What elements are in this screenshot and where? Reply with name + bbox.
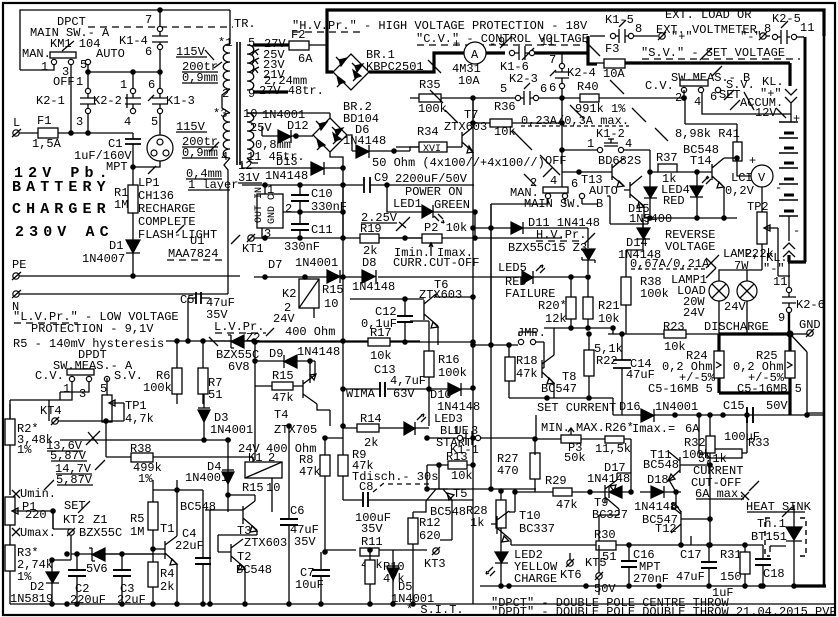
svg-text:270nF: 270nF [633,572,669,586]
svg-text:S.V.: S.V. [114,369,143,383]
svg-text:22uF: 22uF [175,539,204,553]
svg-text:T14: T14 [690,154,712,168]
svg-text:1: 1 [76,75,83,89]
svg-text:R18: R18 [516,354,538,368]
svg-text:R21: R21 [598,299,620,313]
svg-text:1: 1 [63,382,70,396]
svg-text:MAN.: MAN. [22,47,51,61]
svg-text:R33: R33 [748,436,770,450]
svg-text:CH136: CH136 [138,189,174,203]
wire junction row 218 [607,196,737,228]
svg-text:R29: R29 [545,474,567,488]
svg-text:5V6: 5V6 [86,562,108,576]
svg-text:SET: SET [64,499,86,513]
svg-text:BT151: BT151 [751,530,787,544]
svg-text:MPT: MPT [106,160,128,174]
svg-text:5: 5 [151,115,158,129]
svg-text:OFF: OFF [545,154,567,168]
svg-text:T1: T1 [160,522,174,536]
svg-text:Umin.: Umin. [20,487,56,501]
terminal KT6, terminal KT5 [567,560,573,566]
svg-text:47uF: 47uF [676,570,705,584]
svg-text:"H.V.Pr." - HIGH VOLTAGE PROTE: "H.V.Pr." - HIGH VOLTAGE PROTECTION - 18… [292,19,588,33]
svg-text:3: 3 [76,115,83,129]
terminal KT1 [248,235,254,241]
svg-text:7: 7 [145,13,152,27]
svg-text:ZTX603: ZTX603 [244,536,287,550]
svg-text:RED: RED [663,194,685,208]
svg-text:1M: 1M [114,198,128,212]
svg-text:10: 10 [324,297,338,311]
svg-text:OUT IN: OUT IN [254,187,265,223]
svg-text:R16: R16 [438,353,460,367]
svg-text:Th.1: Th.1 [757,517,786,531]
svg-text:P2 10k: P2 10k [424,221,467,235]
svg-text:1N4007: 1N4007 [82,252,125,266]
svg-text:11,5k: 11,5k [595,442,631,456]
svg-text:1N4148: 1N4148 [297,345,340,359]
svg-text:47k: 47k [516,367,538,381]
terminal KT3 [433,548,439,554]
wire thick HV bus [327,10,824,45]
svg-text:1N4148: 1N4148 [634,500,677,514]
svg-text:6: 6 [540,82,547,96]
svg-text:620: 620 [419,529,441,543]
svg-text:R15: R15 [272,369,294,383]
svg-text:CURR.CUT-OFF: CURR.CUT-OFF [393,256,479,270]
svg-text:KT5: KT5 [585,556,607,570]
svg-text:24V: 24V [273,312,295,326]
svg-text:KM1 104: KM1 104 [50,37,100,51]
svg-text:C15: C15 [723,399,745,413]
svg-text:6: 6 [145,45,152,59]
svg-text:GREEN: GREEN [434,198,470,212]
svg-text:47k: 47k [556,498,578,512]
svg-text:RECHARGE: RECHARGE [138,202,196,216]
wire row 545 [630,544,763,546]
svg-text:10k: 10k [451,469,473,483]
svg-text:10A: 10A [458,74,480,88]
svg-text:C5-16MB 5: C5-16MB 5 [648,382,713,396]
svg-text:50 Ohm (4x100//+4x100//): 50 Ohm (4x100//+4x100//) [372,156,545,170]
wires up [153,480,203,540]
bottom bus right of center [480,585,824,587]
svg-text:470: 470 [497,464,519,478]
svg-text:47uF: 47uF [626,368,655,382]
svg-text:Z1: Z1 [93,513,107,527]
svg-text:R20*: R20* [538,299,567,313]
svg-text:1%: 1% [17,443,32,457]
svg-text:KT1: KT1 [242,242,264,256]
resistor R36 10k, transistor T7 ZTX603, resistor R34 [472,98,474,119]
svg-text:1N4148: 1N4148 [343,134,386,148]
svg-text:TP1: TP1 [125,399,147,413]
svg-text:10k: 10k [370,349,392,363]
svg-text:MAA7824: MAA7824 [168,247,218,261]
svg-text:VOLTAGE: VOLTAGE [665,240,715,254]
dashed DPCT mechanical link [88,26,233,28]
wire AUTO bus y=72 [88,65,160,88]
svg-text:4: 4 [124,115,131,129]
svg-text:D18: D18 [647,473,669,487]
svg-text:4: 4 [694,95,701,109]
svg-text:K1-3: K1-3 [166,94,195,108]
svg-text:R37: R37 [656,151,678,165]
svg-text:47k: 47k [272,391,294,405]
svg-text:T4: T4 [274,408,288,422]
svg-text:BC337: BC337 [519,522,555,536]
wire mains top [20,10,230,70]
svg-text:4: 4 [550,174,557,188]
svg-text:+: + [793,112,800,126]
svg-text:BZX55C15 Z3: BZX55C15 Z3 [508,241,587,255]
svg-text:1uF: 1uF [712,586,734,600]
svg-text:T2: T2 [237,550,251,564]
svg-text:ZTX603: ZTX603 [419,288,462,302]
svg-text:+: + [749,154,756,168]
svg-text:12V: 12V [755,106,777,120]
svg-text:MAX.: MAX. [576,421,605,435]
terminal KL -, contact K2-6 [783,216,795,257]
svg-text:10A: 10A [603,67,625,81]
svg-text:XVI: XVI [423,144,441,155]
svg-text:1k: 1k [470,516,484,530]
svg-text:KT2: KT2 [63,513,85,527]
wire rail 341 [166,340,420,342]
svg-text:"-": "-" [740,30,762,44]
terminal KL + [785,89,797,122]
transistor T13 BD682S [562,171,612,173]
svg-text:35V: 35V [361,522,383,536]
svg-text:5: 5 [100,382,107,396]
svg-text:9: 9 [778,311,785,325]
svg-text:24V: 24V [724,300,746,314]
svg-text:"+": "+" [671,30,693,44]
resistor R20 12k, resistor R21 10k [571,277,588,328]
svg-text:Umax.: Umax. [20,526,56,540]
svg-text:150: 150 [720,570,742,584]
svg-text:"DPDT" - DOUBLE POLE DOUBLE TH: "DPDT" - DOUBLE POLE DOUBLE THROW 21.04.… [491,605,837,617]
svg-text:C10: C10 [311,187,333,201]
node top junction [158,8,162,12]
svg-text:D7: D7 [268,258,282,272]
svg-text:-: - [489,37,496,51]
svg-text:R31: R31 [720,548,742,562]
svg-text:ZTX705: ZTX705 [274,423,317,437]
svg-text:BATTERY: BATTERY [12,179,111,196]
svg-text:5: 5 [248,36,255,50]
svg-text:1N4148: 1N4148 [352,280,395,294]
svg-text:6A: 6A [685,422,700,436]
svg-text:D8: D8 [362,256,376,270]
svg-text:0,67A/0,21A: 0,67A/0,21A [630,257,710,271]
svg-text:T12: T12 [655,522,677,536]
svg-text:R36: R36 [494,100,516,114]
svg-text:+: + [453,37,460,51]
svg-text:2200uF/50V: 2200uF/50V [395,172,468,186]
transformer core [237,42,240,165]
svg-text:1M: 1M [130,525,144,539]
svg-text:C6: C6 [290,504,304,518]
svg-text:4,7uF: 4,7uF [390,374,426,388]
svg-text:35V: 35V [294,535,316,549]
svg-text:C11: C11 [311,223,333,237]
svg-text:50V: 50V [766,399,788,413]
svg-text:1N4001: 1N4001 [295,256,338,270]
svg-text:2: 2 [675,91,682,105]
svg-text:330nF: 330nF [284,240,320,254]
svg-text:8: 8 [635,22,642,36]
svg-text:K2-2: K2-2 [93,94,122,108]
svg-text:DISCHARGE: DISCHARGE [704,320,769,334]
wire bottom ground bus [10,603,835,605]
svg-text:K1-1: K1-1 [450,443,479,457]
svg-text:R12: R12 [419,516,441,530]
svg-text:1: 1 [120,78,127,92]
svg-text:0,1uF: 0,1uF [361,317,397,331]
battery ACCUM 12V [779,122,798,216]
svg-text:24V: 24V [683,306,705,320]
svg-text:1N4148: 1N4148 [587,472,630,486]
svg-text:230V AC: 230V AC [15,224,114,241]
svg-text:11: 11 [773,275,787,289]
svg-text:1,5A: 1,5A [32,137,62,151]
net SET CURRENT [509,398,613,415]
wire right rail [823,12,826,586]
svg-text:F3: F3 [605,42,619,56]
svg-text:400 Ohm: 400 Ohm [285,325,335,339]
switch KM1 104 MAIN SW-A [20,65,54,70]
svg-text:K2: K2 [282,287,296,301]
svg-text:1N4001: 1N4001 [185,471,228,485]
svg-text:-: - [775,181,782,195]
svg-text:6: 6 [710,90,717,104]
svg-text:5: 5 [80,58,87,72]
svg-text:6: 6 [549,81,556,95]
svg-text:L: L [13,116,20,130]
svg-text:F1: F1 [37,114,51,128]
svg-text:R40: R40 [577,80,599,94]
svg-text:D16: D16 [619,400,641,414]
svg-text:1N4001: 1N4001 [655,400,698,414]
svg-text:100k: 100k [418,102,447,116]
svg-text:R15: R15 [242,481,264,495]
svg-text:11: 11 [800,21,814,35]
svg-text:2k: 2k [160,580,174,594]
vertical main columns [343,98,491,604]
svg-text:R35: R35 [419,78,441,92]
svg-text:11: 11 [540,35,554,49]
svg-text:C.V.: C.V. [645,79,674,93]
svg-text:R11: R11 [361,535,383,549]
svg-text:47k: 47k [299,465,321,479]
svg-text:EXT. LOAD OR: EXT. LOAD OR [665,8,751,22]
svg-text:COMPLETE: COMPLETE [138,215,196,229]
svg-text:U1: U1 [190,234,204,248]
svg-text:K2-6: K2-6 [796,298,825,312]
svg-text:"S.V." - SET VOLTAGE: "S.V." - SET VOLTAGE [641,46,785,60]
svg-text:F2: F2 [291,28,305,42]
svg-text:ZTX603: ZTX603 [444,120,487,134]
svg-text:FLASH-LIGHT: FLASH-LIGHT [138,228,217,242]
svg-text:"-": "-" [763,262,785,276]
svg-text:CHARGER: CHARGER [12,201,111,218]
svg-text:10k: 10k [664,340,686,354]
svg-text:BC548: BC548 [643,458,679,472]
svg-text:100k: 100k [640,287,669,301]
svg-text:MIN.: MIN. [541,421,570,435]
svg-text:LED1: LED1 [393,197,422,211]
svg-text:C8: C8 [359,480,373,494]
svg-text:V: V [758,171,766,185]
svg-text:A: A [471,48,479,62]
svg-text:2: 2 [285,202,292,216]
svg-text:1%: 1% [138,472,153,486]
svg-text:-: - [793,224,800,238]
svg-text:12k: 12k [545,312,567,326]
regulator U1 MAA7824 [257,194,283,228]
svg-text:R26*: R26* [605,421,634,435]
svg-text:10: 10 [266,481,280,495]
svg-text:JMP.: JMP. [517,326,546,340]
svg-text:KT3: KT3 [424,557,446,571]
svg-text:H.V.Pr.: H.V.Pr. [536,228,586,242]
svg-text:K2-3: K2-3 [509,72,538,86]
svg-text:D13: D13 [276,155,298,169]
svg-text:K1-4: K1-4 [119,34,148,48]
thick S.V. rail down to battery [788,63,791,86]
svg-text:CHARGE: CHARGE [514,572,557,586]
svg-text:R30: R30 [594,528,616,542]
bottom text [406,596,837,617]
svg-text:K1-5: K1-5 [605,13,634,27]
svg-text:6A: 6A [298,52,313,66]
svg-text:D9: D9 [269,347,283,361]
svg-text:AUTO: AUTO [589,184,618,198]
svg-text:8: 8 [764,22,771,36]
svg-text:4: 4 [625,137,632,151]
svg-text:S.V.: S.V. [726,78,755,92]
diagonal leaders [428,42,668,175]
svg-text:6: 6 [148,78,155,92]
svg-text:PE: PE [12,258,26,272]
svg-text:R34: R34 [417,125,439,139]
svg-text:0,2V: 0,2V [725,184,755,198]
svg-text:6V8: 6V8 [228,360,250,374]
svg-text:T10: T10 [519,509,541,523]
svg-text:6: 6 [571,177,578,191]
svg-text:C.V.: C.V. [35,369,64,383]
svg-text:C17: C17 [680,548,702,562]
svg-text:LP1: LP1 [138,176,160,190]
svg-text:C5: C5 [180,293,194,307]
svg-text:100k: 100k [438,366,467,380]
svg-text:7: 7 [549,53,556,67]
svg-text:K2-4: K2-4 [567,66,596,80]
svg-text:9: 9 [498,35,505,49]
svg-text:GND C: GND C [267,194,278,224]
svg-text:KT4: KT4 [40,404,62,418]
svg-text:K2-5: K2-5 [772,12,801,26]
svg-text:100k: 100k [143,381,172,395]
svg-text:51: 51 [208,388,222,402]
svg-text:1: 1 [587,137,594,151]
svg-text:1: 1 [41,60,48,74]
svg-text:R22: R22 [596,354,618,368]
svg-text:SET CURRENT: SET CURRENT [537,401,616,415]
svg-text:1N4148: 1N4148 [265,169,308,183]
svg-text:10k: 10k [494,125,516,139]
svg-text:TR.: TR. [234,17,256,31]
svg-text:C18: C18 [763,567,785,581]
svg-text:R15: R15 [322,283,344,297]
title block [12,165,114,241]
svg-text:LCI: LCI [731,171,753,185]
svg-text:BZX55C: BZX55C [79,526,122,540]
svg-text:D12: D12 [287,119,309,133]
svg-text:KT6: KT6 [560,568,582,582]
svg-text:R4: R4 [160,567,174,581]
wire 440 row [60,439,231,441]
svg-text:3: 3 [79,387,86,401]
svg-text:R5: R5 [130,512,144,526]
svg-text:1: 1 [267,183,274,197]
svg-text:8,98k R41: 8,98k R41 [675,127,740,141]
svg-text:10k: 10k [598,312,620,326]
svg-text:AUTO: AUTO [96,47,125,61]
svg-text:K2-1: K2-1 [36,94,65,108]
svg-text:50V: 50V [594,582,616,596]
svg-text:D1: D1 [109,239,123,253]
svg-text:5: 5 [500,82,507,96]
lamp LP1 CH136 flash-light [159,114,161,135]
svg-text:50k: 50k [564,451,586,465]
svg-text:4,7k: 4,7k [125,412,154,426]
misc verticals [690,536,692,545]
svg-text:Imax.=: Imax.= [632,422,675,436]
svg-text:1N4001: 1N4001 [210,423,253,437]
svg-text:220: 220 [25,508,47,522]
transformer TR primary windings 115V [229,10,231,44]
svg-text:10uF: 10uF [295,578,324,592]
svg-text:PROTECTION - 9,1V: PROTECTION - 9,1V [31,322,154,336]
